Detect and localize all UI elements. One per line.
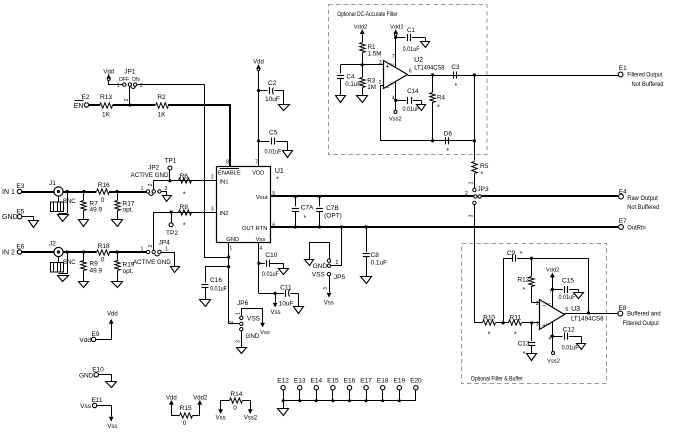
svg-text:R12: R12	[517, 277, 529, 284]
svg-text:C11: C11	[280, 285, 292, 292]
svg-text:IN 2: IN 2	[2, 250, 15, 257]
svg-text:E15: E15	[327, 377, 339, 384]
svg-text:C3: C3	[451, 64, 460, 71]
svg-text:E12: E12	[277, 377, 289, 384]
svg-text:E14: E14	[311, 377, 323, 384]
svg-text:J2: J2	[49, 241, 56, 248]
svg-text:IN2: IN2	[220, 211, 229, 217]
svg-text:Vss: Vss	[80, 403, 92, 410]
svg-text:*: *	[455, 83, 458, 90]
svg-text:JP1: JP1	[124, 69, 136, 76]
svg-text:Optional Filter & Buffer: Optional Filter & Buffer	[471, 375, 523, 382]
svg-text:BNC: BNC	[63, 199, 76, 205]
svg-text:3: 3	[468, 214, 474, 217]
svg-text:E4: E4	[619, 188, 627, 195]
svg-text:ACTIVE GND: ACTIVE GND	[133, 259, 171, 266]
svg-text:Optional DC-Accurate Filter: Optional DC-Accurate Filter	[337, 11, 398, 18]
svg-text:Vdd: Vdd	[79, 337, 91, 344]
svg-text:1: 1	[141, 186, 144, 192]
svg-text:4: 4	[259, 245, 262, 251]
svg-text:10uF: 10uF	[265, 96, 280, 103]
svg-text:JP2: JP2	[148, 164, 160, 171]
svg-text:2: 2	[148, 244, 154, 247]
svg-text:IN 1: IN 1	[2, 189, 15, 196]
svg-text:3: 3	[379, 60, 382, 66]
svg-text:7: 7	[255, 160, 258, 166]
svg-text:VSS: VSS	[312, 272, 326, 279]
svg-text:7: 7	[392, 54, 395, 60]
svg-text:0.01uF: 0.01uF	[559, 294, 576, 301]
svg-text:OutRtn: OutRtn	[627, 225, 646, 232]
svg-text:GND: GND	[2, 214, 18, 221]
svg-text:*: *	[520, 251, 523, 258]
svg-text:R5: R5	[480, 163, 489, 170]
svg-text:Vss2: Vss2	[389, 116, 402, 122]
svg-text:3: 3	[536, 321, 539, 327]
svg-text:Vss: Vss	[260, 330, 270, 336]
svg-text:E18: E18	[377, 377, 389, 384]
svg-text:R15: R15	[180, 405, 192, 412]
svg-text:1: 1	[236, 312, 242, 315]
svg-text:Filtered Output: Filtered Output	[627, 71, 662, 78]
svg-text:R11: R11	[510, 314, 522, 321]
svg-text:R8: R8	[180, 204, 189, 211]
svg-text:1: 1	[141, 247, 144, 253]
svg-text:C9: C9	[507, 250, 516, 257]
svg-text:R4: R4	[437, 95, 445, 102]
svg-text:Raw Output: Raw Output	[627, 195, 658, 202]
svg-text:U3: U3	[571, 306, 580, 313]
svg-text:0.01uF: 0.01uF	[562, 345, 579, 352]
svg-text:C7A: C7A	[301, 204, 314, 211]
svg-text:Vdd2: Vdd2	[354, 25, 368, 31]
svg-text:C2: C2	[268, 80, 277, 87]
svg-text:BNC: BNC	[63, 260, 76, 266]
svg-text:1: 1	[117, 83, 120, 89]
svg-text:JP5: JP5	[334, 274, 346, 281]
svg-text:0.01uF: 0.01uF	[210, 285, 227, 292]
svg-text:0.1uF: 0.1uF	[345, 81, 361, 88]
svg-text:1.5M: 1.5M	[368, 51, 382, 58]
svg-text:2: 2	[211, 175, 214, 181]
svg-text:2: 2	[336, 260, 339, 266]
svg-text:E11: E11	[91, 397, 102, 404]
svg-text:V+: V+	[546, 301, 552, 306]
svg-text:C8: C8	[371, 252, 380, 259]
svg-text:R14: R14	[230, 391, 242, 398]
svg-text:49.9: 49.9	[90, 207, 103, 214]
svg-text:C16: C16	[210, 277, 222, 284]
svg-text:2: 2	[465, 191, 468, 197]
svg-text:VSS: VSS	[247, 315, 261, 322]
svg-text:D6: D6	[444, 131, 453, 138]
svg-text:Buffered and: Buffered and	[627, 311, 661, 318]
svg-text:*: *	[304, 215, 307, 222]
svg-text:Vss2: Vss2	[244, 416, 258, 422]
svg-text:E10: E10	[92, 367, 104, 374]
svg-text:0.01uF: 0.01uF	[403, 46, 420, 53]
svg-text:0.01uF: 0.01uF	[265, 148, 282, 155]
svg-text:1: 1	[468, 181, 474, 184]
svg-text:LT1494CS8: LT1494CS8	[414, 64, 444, 71]
svg-text:6: 6	[409, 68, 412, 74]
svg-text:R16: R16	[98, 182, 110, 189]
svg-text:2: 2	[228, 320, 234, 323]
svg-text:1K: 1K	[102, 112, 111, 119]
svg-text:0.1uF: 0.1uF	[371, 259, 388, 266]
svg-text:Vss: Vss	[216, 416, 226, 422]
svg-text:OFF: OFF	[119, 77, 129, 83]
svg-text:R10: R10	[483, 314, 495, 321]
svg-text:E2: E2	[82, 94, 90, 101]
svg-text:E19: E19	[394, 377, 406, 384]
svg-text:Vout: Vout	[256, 195, 268, 201]
svg-text:*: *	[183, 192, 186, 199]
svg-text:JP3: JP3	[477, 186, 489, 193]
svg-text:ACTIVE GND: ACTIVE GND	[131, 172, 169, 179]
svg-text:opt.: opt.	[123, 207, 134, 214]
svg-text:6: 6	[565, 307, 568, 313]
svg-text:V+: V+	[389, 62, 395, 67]
svg-text:R13: R13	[100, 94, 112, 101]
svg-text:0: 0	[233, 405, 237, 412]
svg-text:J1: J1	[49, 180, 56, 187]
svg-text:C7B: C7B	[326, 205, 339, 212]
svg-text:JP4: JP4	[158, 240, 170, 247]
svg-text:*: *	[481, 172, 484, 179]
svg-text:8: 8	[226, 160, 229, 166]
svg-text:OUT RTN: OUT RTN	[242, 226, 268, 232]
svg-text:R18: R18	[98, 243, 110, 250]
svg-text:C13: C13	[518, 341, 530, 348]
svg-text:0: 0	[183, 420, 187, 427]
svg-text:U2: U2	[414, 57, 423, 64]
svg-text:C1: C1	[407, 27, 415, 34]
svg-text:0: 0	[101, 257, 105, 264]
svg-text:Not Buffered: Not Buffered	[627, 204, 659, 211]
svg-text:Not Buffered: Not Buffered	[632, 81, 664, 88]
svg-text:opt.: opt.	[123, 268, 134, 275]
svg-text:Vss: Vss	[256, 237, 266, 243]
svg-text:3: 3	[323, 287, 329, 290]
svg-text:49.9: 49.9	[90, 267, 103, 274]
svg-text:TP2: TP2	[166, 230, 178, 237]
svg-text:*: *	[446, 148, 449, 155]
svg-text:C5: C5	[269, 129, 278, 136]
svg-text:2: 2	[536, 301, 539, 307]
svg-text:Vss2: Vss2	[547, 359, 560, 365]
svg-text:E13: E13	[294, 377, 306, 384]
svg-text:LT1494CS8: LT1494CS8	[571, 315, 604, 322]
svg-text:GND: GND	[226, 237, 239, 243]
svg-text:Vss: Vss	[107, 424, 117, 429]
svg-text:E17: E17	[360, 377, 372, 384]
svg-text:2: 2	[148, 183, 154, 186]
svg-text:1: 1	[229, 245, 232, 251]
svg-text:*: *	[488, 332, 491, 339]
svg-text:10uF: 10uF	[279, 300, 294, 307]
svg-text:C14: C14	[407, 88, 419, 95]
svg-text:Vdd2: Vdd2	[546, 267, 560, 273]
svg-text:E8: E8	[619, 305, 627, 312]
svg-text:TP1: TP1	[164, 157, 176, 164]
svg-text:3: 3	[236, 340, 242, 343]
svg-text:ON: ON	[132, 77, 140, 83]
svg-text:VDD: VDD	[252, 170, 264, 176]
svg-text:3: 3	[140, 83, 143, 89]
svg-text:EN: EN	[74, 103, 84, 110]
svg-text:ENABLE: ENABLE	[218, 170, 241, 176]
svg-text:Vdd: Vdd	[107, 311, 118, 317]
svg-text:*: *	[276, 177, 279, 184]
svg-text:E7: E7	[619, 218, 627, 225]
svg-text:0.01uF: 0.01uF	[403, 106, 420, 113]
svg-text:GND: GND	[313, 263, 328, 270]
svg-text:*: *	[523, 351, 526, 358]
svg-text:E20: E20	[410, 377, 422, 384]
svg-text:IN1: IN1	[220, 180, 229, 186]
svg-text:0.01uF: 0.01uF	[262, 271, 279, 278]
svg-text:U1: U1	[275, 168, 284, 175]
svg-text:C10: C10	[265, 252, 277, 259]
svg-text:E16: E16	[344, 377, 356, 384]
svg-text:Vdd2: Vdd2	[193, 395, 208, 401]
svg-text:Vss: Vss	[324, 301, 334, 307]
svg-text:C15: C15	[562, 278, 574, 285]
svg-text:*: *	[437, 105, 440, 112]
svg-text:R6: R6	[180, 173, 189, 180]
svg-text:V−: V−	[389, 82, 395, 87]
svg-text:1K: 1K	[158, 112, 167, 119]
svg-text:1M: 1M	[367, 84, 376, 91]
svg-text:E1: E1	[619, 65, 627, 72]
svg-text:Vss: Vss	[270, 310, 280, 316]
svg-text:R2: R2	[157, 94, 166, 101]
svg-text:V−: V−	[546, 322, 552, 327]
svg-text:1: 1	[165, 247, 168, 253]
svg-text:JP6: JP6	[237, 300, 249, 307]
svg-text:0: 0	[101, 197, 105, 204]
svg-text:Vdd2: Vdd2	[390, 25, 404, 31]
svg-text:*: *	[514, 332, 517, 339]
svg-text:C12: C12	[563, 327, 575, 334]
svg-text:*: *	[523, 287, 526, 294]
svg-text:Filtered Output: Filtered Output	[623, 320, 659, 327]
svg-text:(OPT): (OPT)	[324, 212, 342, 219]
svg-text:3: 3	[211, 206, 214, 212]
svg-text:*: *	[183, 223, 186, 230]
svg-text:C4: C4	[347, 74, 355, 81]
svg-text:GND: GND	[246, 333, 260, 340]
